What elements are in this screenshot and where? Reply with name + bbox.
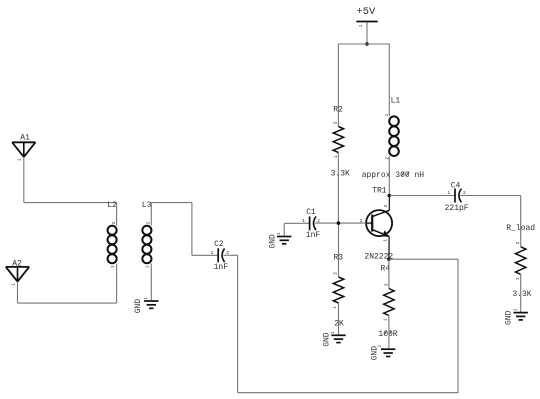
wire rail to R2 <box>337 44 339 127</box>
svg-text:GND: GND <box>134 299 143 314</box>
wire R3 to ground <box>338 303 340 335</box>
wire feedback right vertical <box>457 259 459 393</box>
svg-text:1: 1 <box>447 190 450 196</box>
svg-text:R_load: R_load <box>506 224 535 233</box>
power +5V bar symbol <box>356 21 377 23</box>
svg-text:2K: 2K <box>334 319 344 328</box>
wire A2 down <box>17 282 19 304</box>
svg-text:1: 1 <box>383 318 389 321</box>
ground below R3 <box>331 334 345 336</box>
svg-text:2: 2 <box>111 222 117 225</box>
svg-text:L3: L3 <box>142 201 152 210</box>
node base junction <box>337 221 341 225</box>
svg-text:R3: R3 <box>334 253 344 262</box>
wire L3 bottom stem <box>150 264 152 302</box>
svg-text:1: 1 <box>211 250 214 256</box>
svg-text:+5V: +5V <box>357 6 376 18</box>
capacitor C1 <box>309 216 311 230</box>
wire L3 top stem <box>150 203 152 226</box>
svg-text:GND: GND <box>269 234 278 249</box>
resistor R3 <box>333 277 343 303</box>
slashed zeros in 300 <box>402 172 405 176</box>
svg-text:2: 2 <box>333 121 339 124</box>
wire emitter node to R4 <box>388 259 390 288</box>
svg-text:L1: L1 <box>391 96 401 105</box>
capacitor C4 <box>454 189 456 203</box>
svg-text:1: 1 <box>17 158 23 161</box>
svg-text:1: 1 <box>332 306 338 309</box>
antenna A2 <box>6 267 29 282</box>
wire rail to L1 <box>388 44 390 116</box>
wire L3 to C2 corner <box>151 202 192 204</box>
wire emitter pin <box>388 236 390 259</box>
svg-text:100R: 100R <box>378 330 397 339</box>
wire to C2 <box>192 254 218 256</box>
node collector junction <box>388 194 392 198</box>
wire R2 to base node <box>337 153 339 224</box>
inductor L1 <box>389 116 399 126</box>
wire L1 to collector node <box>388 156 390 195</box>
svg-text:3: 3 <box>383 205 389 208</box>
wire base to node <box>338 222 366 224</box>
resistor R2 <box>333 127 343 153</box>
svg-text:A1: A1 <box>20 134 30 143</box>
wire down to R_load <box>520 196 522 247</box>
wire C4 to R_load corner <box>460 195 521 197</box>
node emitter junction <box>387 257 391 261</box>
wire R4 to ground <box>388 316 390 350</box>
inductor L2 <box>108 226 117 235</box>
svg-text:1: 1 <box>10 283 16 286</box>
wire feedback left vertical <box>237 255 239 392</box>
svg-text:1: 1 <box>143 297 149 300</box>
ground at C1 <box>277 236 291 238</box>
svg-text:1: 1 <box>383 239 389 242</box>
wire power stem <box>366 22 368 44</box>
wire A2 to L2 bottom <box>18 302 117 304</box>
resistor R4 <box>384 289 394 316</box>
wire A1 down <box>23 157 25 203</box>
svg-text:approx 300 nH: approx 300 nH <box>362 171 425 180</box>
wire C1 ground stub vertical <box>283 223 285 236</box>
svg-text:1: 1 <box>110 265 116 268</box>
wire corner down to C2 level <box>191 203 193 256</box>
wire C2 to feedback <box>223 254 237 256</box>
resistor R_load <box>516 247 526 274</box>
slashed zeros in 100R <box>384 330 387 334</box>
svg-text:C2: C2 <box>214 240 224 249</box>
svg-text:GND: GND <box>505 310 514 325</box>
wire L2 bottom stem <box>116 264 118 304</box>
svg-text:1: 1 <box>384 114 390 117</box>
wire C1 to base node <box>315 222 339 224</box>
svg-text:1: 1 <box>145 265 151 268</box>
antenna A1 <box>12 142 35 157</box>
svg-text:3.3K: 3.3K <box>512 290 531 299</box>
wire feedback bottom <box>238 392 458 394</box>
svg-text:1nF: 1nF <box>306 231 321 240</box>
svg-text:GND: GND <box>322 332 331 347</box>
wire R_load to ground <box>520 274 522 312</box>
svg-text:2: 2 <box>332 272 338 275</box>
wire collector pin <box>388 196 390 211</box>
svg-text:2: 2 <box>383 283 389 286</box>
svg-text:1: 1 <box>513 308 519 311</box>
inductor L3 <box>142 226 151 235</box>
ground below R4 <box>381 348 395 350</box>
svg-text:1nF: 1nF <box>214 263 229 272</box>
wire base node to R3 <box>338 223 340 277</box>
svg-text:3.3K: 3.3K <box>331 170 350 179</box>
wire C1 ground stub horizontal <box>284 222 309 224</box>
node supply junction <box>365 42 369 46</box>
svg-text:TR1: TR1 <box>372 186 387 195</box>
wire top rail <box>338 43 389 45</box>
wire L2 top stem <box>116 203 118 226</box>
svg-text:C1: C1 <box>306 208 316 217</box>
capacitor C2 <box>217 248 219 262</box>
svg-text:2: 2 <box>146 222 152 225</box>
svg-text:1: 1 <box>358 24 364 27</box>
svg-text:1: 1 <box>302 218 305 224</box>
wire A1 to L2 <box>24 202 117 204</box>
svg-text:2: 2 <box>515 241 521 244</box>
svg-text:R2: R2 <box>333 105 343 114</box>
ground below R_load <box>514 312 528 314</box>
svg-text:1: 1 <box>515 277 521 280</box>
svg-text:GND: GND <box>371 346 380 361</box>
svg-text:221pF: 221pF <box>445 204 469 213</box>
svg-text:L2: L2 <box>107 201 117 210</box>
wire collector node to C4 <box>389 195 455 197</box>
ground below L3 <box>144 300 158 302</box>
svg-text:A2: A2 <box>12 259 22 268</box>
wire emitter node to feedback <box>389 258 458 260</box>
transistor TR1 2N2222 NPN <box>366 210 392 237</box>
